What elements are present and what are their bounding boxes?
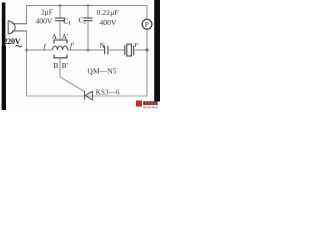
heater coil f f' — [52, 46, 67, 50]
gas sensor QM-N5 top electrode A A' — [54, 40, 67, 44]
heater rail wire right — [68, 49, 105, 51]
svg-text:400V: 400V — [36, 17, 53, 26]
wire bottom rail — [27, 95, 148, 97]
capacitor C2 — [84, 6, 93, 50]
left black scan strip — [2, 3, 6, 47]
heater rail wire left — [27, 49, 53, 51]
wire left vertical lower — [26, 31, 28, 96]
wire top rail — [27, 5, 148, 7]
svg-text:2µF: 2µF — [41, 9, 53, 17]
svg-text:0.22µF: 0.22µF — [97, 9, 119, 17]
svg-text:400V: 400V — [100, 18, 117, 27]
wire gate diagonal — [60, 77, 84, 91]
svg-text:A: A — [52, 33, 58, 41]
right black scan strip — [154, 0, 160, 102]
svg-text:A′: A′ — [62, 33, 69, 41]
capacitor C1 — [55, 6, 65, 40]
wire right vertical lower — [146, 29, 148, 96]
svg-text:P: P — [145, 21, 149, 29]
svg-text:B′: B′ — [62, 62, 69, 70]
plug X 220V — [8, 21, 26, 34]
svg-text:QM—N5: QM—N5 — [88, 67, 117, 76]
svg-text:F: F — [135, 42, 139, 49]
svg-text:f′: f′ — [70, 41, 74, 50]
alarm device P — [142, 19, 152, 29]
node junction top C1 — [59, 4, 62, 7]
node junction C2/heater — [87, 49, 90, 52]
svg-text:B: B — [54, 62, 59, 70]
piezo sounder F — [125, 44, 134, 56]
svg-text:N: N — [100, 42, 105, 50]
node junction right rail — [145, 48, 148, 51]
watermark logo — [136, 101, 142, 107]
node junction top C2 — [87, 4, 90, 7]
thyristor KS3-6 — [85, 91, 93, 100]
wire left vertical upper — [26, 6, 28, 24]
svg-text:KS3—6: KS3—6 — [96, 89, 120, 97]
node junction heater left — [25, 49, 28, 52]
neon N — [105, 46, 108, 55]
svg-text:220V: 220V — [4, 37, 21, 46]
wire right vertical upper — [146, 6, 148, 20]
gas sensor bottom electrode B B' — [54, 55, 67, 58]
